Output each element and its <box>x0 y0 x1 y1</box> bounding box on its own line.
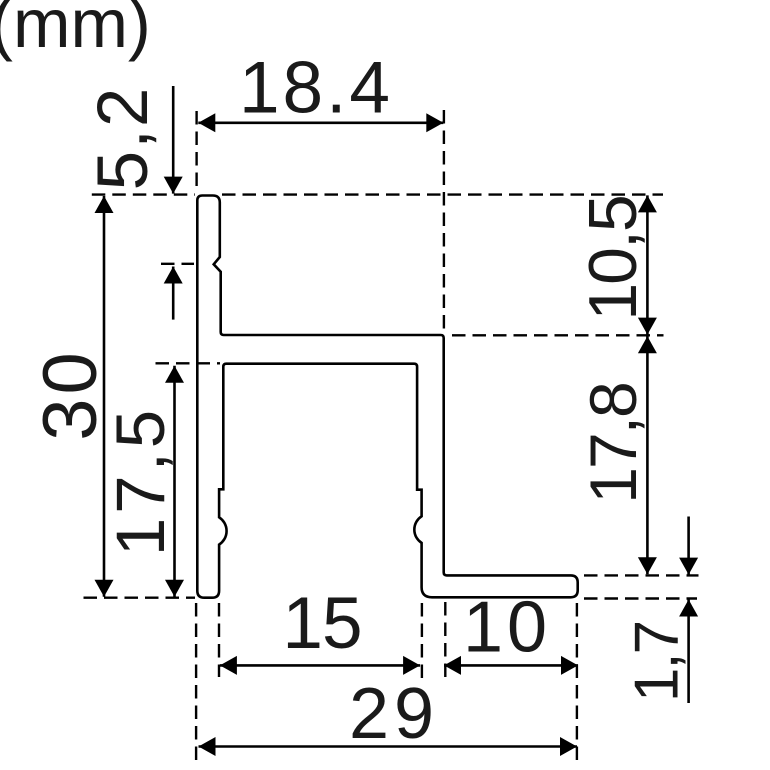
extension line bottom vertical x=196 (dashed) <box>195 603 197 766</box>
dimension 1,7 (flange thickness, outside arrows) <box>623 517 699 704</box>
svg-text:1,7: 1,7 <box>623 622 692 702</box>
extension line flange top level right (dashed) <box>584 574 699 576</box>
extension line 18.4 left vertical (dashed) <box>195 111 197 193</box>
svg-text:29: 29 <box>349 674 439 754</box>
dimension 15 (channel width) <box>220 583 420 675</box>
extension line bottom level right (dashed) <box>584 597 697 599</box>
extension line top edge left (dashed) <box>92 193 195 195</box>
svg-text:30: 30 <box>28 348 113 441</box>
svg-text:5,2: 5,2 <box>84 86 163 191</box>
extension line shelf bottom level for 17,5 (dashed) <box>156 362 221 364</box>
extension line top edge right (dashed) <box>222 193 663 195</box>
extension line bottom vertical x=422 (dashed) <box>421 603 423 680</box>
dimension 17,5 (left channel height) <box>102 366 184 597</box>
extension line bottom level left (dashed) <box>84 597 196 599</box>
svg-text:(mm): (mm) <box>0 0 151 62</box>
extension line notch level for 5,2 (dashed) <box>161 263 194 265</box>
svg-text:17,8: 17,8 <box>576 383 650 503</box>
extension line 18.4 right vertical (dashed) <box>443 110 445 334</box>
aluminium profile cross-section outline <box>197 196 577 598</box>
svg-text:17,5: 17,5 <box>102 406 179 556</box>
dimension 10 (flange length) <box>444 588 578 675</box>
dimension 17,8 (shelf to flange top) <box>576 336 657 574</box>
dimension 5,2 (top to notch, outside arrows) <box>84 86 183 320</box>
extension line bottom vertical x=445 (dashed) <box>444 602 446 677</box>
dimension 29 (overall width) <box>199 674 578 756</box>
extension line bottom vertical x=219 (dashed) <box>218 603 220 677</box>
dimension 30 (overall height) <box>28 196 114 597</box>
svg-text:18.4: 18.4 <box>239 48 393 129</box>
dimension 10,5 (top to shelf) <box>575 195 657 334</box>
svg-text:10: 10 <box>463 588 551 668</box>
dimension 18.4 (top width) <box>198 48 443 133</box>
extension line bottom vertical x=577 (dashed) <box>576 603 578 764</box>
extension line shelf top level right (dashed) <box>452 334 664 336</box>
svg-text:10,5: 10,5 <box>575 196 651 320</box>
svg-text:15: 15 <box>282 583 361 664</box>
